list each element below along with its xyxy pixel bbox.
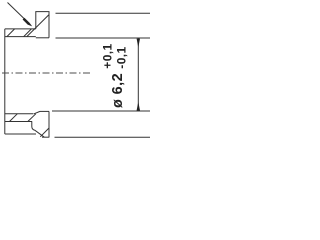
svg-text:-0,1: -0,1	[114, 46, 128, 68]
housing bottom outer line	[55, 136, 151, 138]
housing top bore line	[56, 37, 151, 39]
svg-text:ø 6,2: ø 6,2	[110, 73, 126, 108]
dim arrowhead top	[137, 39, 140, 48]
sleeve top outer line	[5, 28, 36, 30]
step with fillet and flare diagonal	[32, 122, 45, 138]
hatch top 2	[24, 29, 32, 37]
hatch bottom 2	[28, 114, 36, 122]
flare chamfer hatch	[40, 128, 49, 137]
hatch long diagonal into collar	[27, 15, 49, 37]
hatch bottom 1	[10, 114, 18, 122]
bottom bore line left	[40, 110, 49, 112]
centerline	[2, 72, 92, 74]
sleeve bottom outer line	[5, 121, 32, 123]
collar bottom edge	[36, 37, 49, 39]
svg-text:+0,1: +0,1	[101, 43, 115, 68]
dimension line	[137, 38, 139, 111]
dim arrowhead bottom	[137, 102, 140, 111]
housing top outer line	[56, 12, 151, 14]
flare bottom edge	[42, 136, 49, 138]
left end face vertical	[4, 29, 6, 134]
leader arrow shaft	[8, 3, 25, 20]
bottom bore line right	[52, 110, 150, 112]
hatch top 1	[7, 29, 15, 37]
sleeve top inner line	[5, 36, 36, 38]
bottom outer left line	[5, 133, 36, 135]
flange collar outline	[36, 12, 49, 38]
leader arrowhead	[23, 18, 33, 27]
sleeve bottom inner line	[5, 113, 34, 115]
taper joining bore	[34, 111, 40, 113]
flare right vertical	[48, 111, 50, 137]
